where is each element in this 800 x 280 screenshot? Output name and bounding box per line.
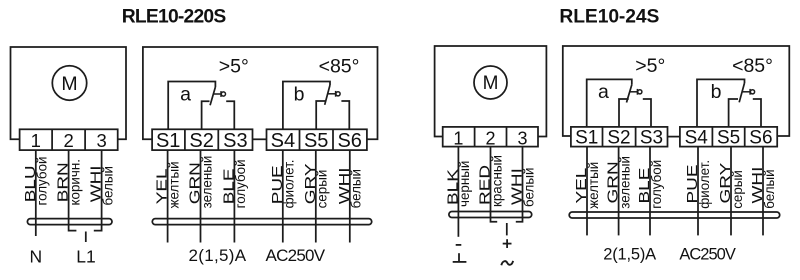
svg-text:2(1,5)A: 2(1,5)A: [603, 246, 656, 264]
svg-text:серый: серый: [315, 170, 330, 209]
switch b actuator: [328, 91, 340, 97]
switch b (24V) blade: [739, 83, 744, 102]
svg-text:S1: S1: [575, 128, 598, 149]
switch b (24V) label: [711, 81, 722, 103]
wire label WHI белый (24V): [749, 167, 777, 209]
auxiliary switch box (RLE10-24S): [563, 46, 790, 136]
svg-text:серый: серый: [730, 170, 745, 209]
plus junction stub: [506, 223, 508, 235]
switch b NC contact wire: [316, 101, 325, 129]
wire S2 (24V): [618, 147, 620, 236]
switch a blade: [210, 87, 215, 105]
L1 junction stub: [85, 232, 87, 243]
svg-text:AC250V: AC250V: [266, 246, 326, 265]
wire label PUE фиолет.: [269, 160, 297, 209]
switch a (24V) label: [598, 81, 609, 103]
wire S3 (24V): [649, 147, 651, 236]
svg-text:S4: S4: [685, 128, 709, 149]
DC common symbol: [453, 253, 467, 262]
rating label AC250V: [266, 246, 326, 265]
svg-text:b: b: [294, 83, 305, 105]
terminal 2 label: [63, 130, 73, 151]
switch a (24V) NO contact wire: [643, 99, 651, 127]
switch b (24V) NO contact wire: [753, 99, 761, 127]
svg-text:коричн.: коричн.: [67, 159, 82, 205]
wire label WHI белый (24V motor): [508, 168, 536, 207]
wire label WHI белый: [336, 167, 364, 208]
terminal S4 label (24V): [685, 128, 709, 149]
svg-text:S5: S5: [717, 128, 740, 149]
motor M symbol (24V): [474, 66, 507, 99]
svg-text:3: 3: [517, 128, 527, 148]
switch b (24V) NC contact wire: [729, 99, 738, 127]
strip connector S3-S4: [253, 138, 267, 140]
wire label BRN коричн.: [55, 159, 83, 205]
switch a (24V) NC contact wire: [619, 99, 629, 127]
svg-text:фиолет.: фиолет.: [282, 160, 297, 209]
svg-text:S5: S5: [304, 130, 328, 152]
label <85 degrees (24V): [732, 55, 773, 77]
terminal strip S4 S5 S6: [267, 129, 367, 150]
wire S5 (24V): [730, 147, 732, 236]
terminal S5 label: [304, 130, 328, 152]
switch a label: [180, 83, 191, 105]
switch b NO contact wire: [341, 101, 349, 129]
svg-text:>5°: >5°: [635, 55, 665, 77]
terminal 1 label: [31, 130, 41, 151]
svg-text:фиолет.: фиолет.: [697, 160, 712, 209]
terminal strip S1 S2 S3 (24V): [571, 127, 668, 147]
terminal strip 1 2 3: [20, 129, 118, 150]
wire label BLK черный: [444, 161, 472, 207]
switch a (24V) actuator: [630, 89, 642, 95]
terminal strip S4 S5 S6 (24V): [680, 127, 777, 147]
switch a actuator: [213, 91, 225, 97]
svg-text:1: 1: [453, 128, 463, 148]
wire label YEL желтый: [154, 161, 182, 208]
rating label 2(1,5)A (24V): [603, 246, 656, 264]
svg-text:S6: S6: [337, 130, 361, 152]
wire label RED красный: [476, 155, 504, 207]
svg-text:M: M: [483, 73, 499, 94]
svg-text:<85°: <85°: [319, 55, 360, 77]
motor M symbol: [52, 66, 86, 100]
wire terminal2 (to L1 junction): [69, 150, 77, 231]
svg-text:белый: белый: [100, 166, 115, 205]
cable sleeve (24V motor leads): [449, 212, 532, 218]
switch a NC contact wire: [202, 101, 210, 129]
svg-text:голубой: голубой: [649, 160, 664, 209]
wire S2: [200, 150, 202, 242]
svg-text:1: 1: [31, 130, 41, 151]
svg-text:белый: белый: [762, 169, 777, 208]
wire label BLE голубой: [220, 159, 248, 208]
label >5 degrees: [219, 55, 249, 77]
title RLE10-24S: [559, 7, 659, 28]
motor box (RLE10-24S actuator body): [435, 46, 547, 137]
terminal 3 label: [96, 130, 106, 151]
wire terminal3 (to L1 junction): [94, 150, 102, 231]
terminal strip 1 2 3 (24V): [443, 127, 538, 147]
svg-text:красный: красный: [489, 155, 504, 207]
motor box (RLE10-220S actuator body): [11, 47, 127, 139]
AC tilde symbol: [501, 261, 513, 265]
title RLE10-220S: [122, 7, 227, 28]
wire S4: [282, 150, 284, 242]
svg-text:3: 3: [96, 130, 106, 151]
rating label 2(1,5)A: [189, 246, 247, 265]
svg-text:L1: L1: [76, 247, 95, 267]
wire terminal1 to N: [35, 150, 37, 236]
svg-text:2(1,5)A: 2(1,5)A: [189, 246, 247, 265]
terminal S6 label (24V): [749, 128, 772, 149]
wire S4 (24V): [697, 147, 699, 236]
wire S5: [315, 150, 317, 242]
svg-text:голубой: голубой: [35, 157, 50, 206]
svg-text:S4: S4: [271, 130, 295, 152]
switch b label: [294, 83, 305, 105]
label >5 degrees (24V): [635, 55, 665, 77]
switch b (24V) actuator: [742, 89, 754, 95]
terminal 2 label (24V): [485, 128, 495, 148]
cable sleeve (switch leads): [152, 219, 371, 225]
svg-text:2: 2: [63, 130, 73, 151]
wire S6 (24V): [762, 147, 764, 236]
minus sign: [456, 244, 462, 246]
switch a common wire: [168, 82, 215, 130]
svg-text:S2: S2: [189, 130, 213, 152]
wire label BLE голубой (24V): [636, 160, 664, 209]
terminal S1 label (24V): [575, 128, 598, 149]
svg-text:>5°: >5°: [219, 55, 249, 77]
wire label GRN зеленый: [186, 156, 214, 209]
svg-text:зеленый: зеленый: [199, 156, 214, 209]
svg-text:зеленый: зеленый: [617, 156, 632, 209]
svg-text:желтый: желтый: [586, 162, 601, 209]
svg-text:b: b: [711, 81, 722, 103]
switch b (24V) common wire: [697, 79, 745, 127]
wire label WHI белый: [88, 165, 116, 205]
terminal 1 label (24V): [453, 128, 463, 148]
wire label BLU голубой: [22, 157, 50, 206]
terminal S3 label: [223, 130, 247, 152]
terminal 3 label (24V): [517, 128, 527, 148]
svg-text:a: a: [180, 83, 191, 105]
terminal strip S1 S2 S3: [152, 129, 252, 150]
terminal S5 label (24V): [717, 128, 740, 149]
terminal S2 label: [189, 130, 213, 152]
cable sleeve (24V switch leads): [569, 212, 780, 218]
wire label GRY серый (24V): [717, 163, 745, 209]
auxiliary switch box (RLE10-220S): [143, 47, 378, 139]
wire S1 (24V): [586, 147, 588, 236]
node L1 label: [76, 247, 95, 267]
terminal S4 label: [271, 130, 295, 152]
svg-text:N: N: [29, 247, 42, 267]
terminal S3 label (24V): [640, 128, 663, 149]
svg-text:S2: S2: [607, 128, 630, 149]
wire S1: [167, 150, 169, 242]
wire terminal2 (to plus junction): [491, 147, 498, 222]
svg-text:белый: белый: [349, 169, 364, 208]
wire label YEL желтый (24V): [573, 162, 601, 209]
svg-text:RLE10-220S: RLE10-220S: [122, 7, 227, 28]
svg-text:S3: S3: [223, 130, 247, 152]
wire S6: [349, 150, 351, 242]
switch a NO contact wire: [226, 101, 234, 129]
svg-text:AC250V: AC250V: [679, 246, 736, 264]
svg-text:2: 2: [485, 128, 495, 148]
switch b common wire: [283, 82, 330, 130]
svg-text:M: M: [61, 73, 77, 95]
rating label AC250V (24V): [679, 246, 736, 264]
svg-text:RLE10-24S: RLE10-24S: [559, 7, 659, 28]
svg-text:S3: S3: [640, 128, 663, 149]
cable sleeve (motor leads): [27, 219, 112, 225]
terminal S2 label (24V): [607, 128, 630, 149]
svg-text:голубой: голубой: [233, 159, 248, 208]
svg-text:S1: S1: [156, 130, 180, 152]
node N label: [29, 247, 42, 267]
wire label PUE фиолет. (24V): [684, 160, 712, 209]
wire label GRY серый: [302, 164, 330, 209]
wire S3: [233, 150, 235, 242]
label <85 degrees: [319, 55, 360, 77]
plus sign: [503, 239, 512, 248]
switch a (24V) blade: [627, 85, 632, 103]
wire terminal1 to minus: [457, 147, 459, 237]
terminal S1 label: [156, 130, 180, 152]
svg-text:a: a: [598, 81, 609, 103]
svg-text:желтый: желтый: [166, 161, 181, 208]
switch b blade: [325, 85, 330, 105]
svg-text:белый: белый: [521, 168, 536, 207]
svg-text:S6: S6: [749, 128, 772, 149]
wire label GRN зеленый (24V): [605, 156, 633, 209]
strip connector S3-S4 (24V): [668, 136, 680, 138]
wire terminal3 (to plus junction): [516, 147, 523, 222]
svg-text:черный: черный: [457, 161, 472, 207]
svg-text:<85°: <85°: [732, 55, 773, 77]
terminal S6 label: [337, 130, 361, 152]
switch a (24V) common wire: [587, 79, 632, 127]
